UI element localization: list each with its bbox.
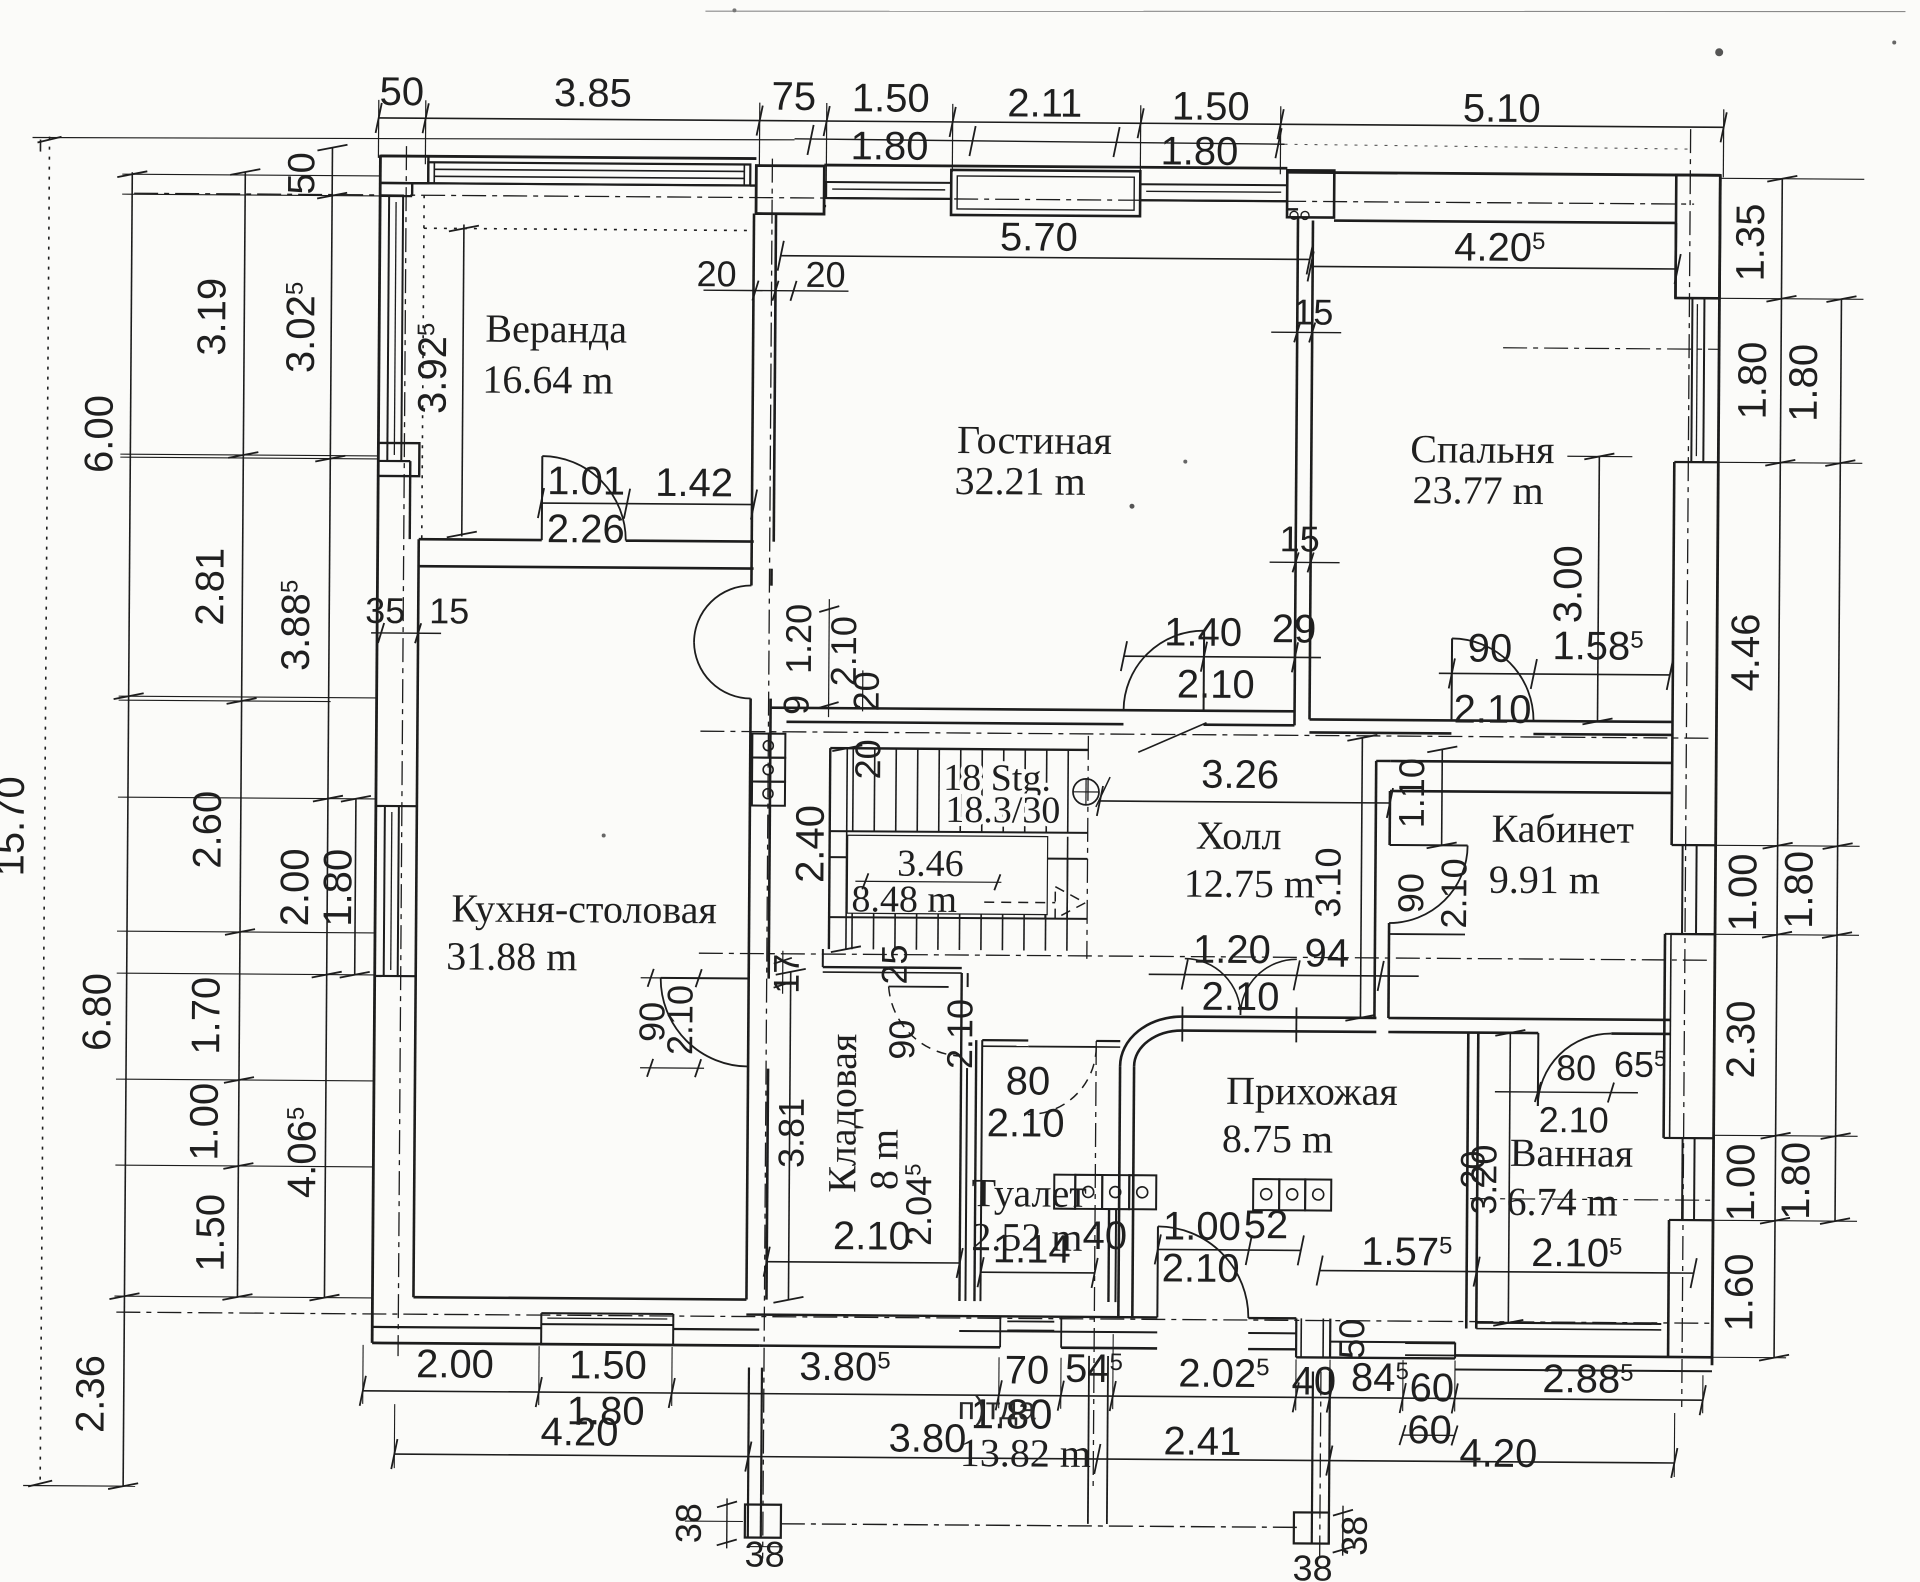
terrace SE corner block bbox=[1294, 1512, 1329, 1543]
dimension 1.00/52 entrance door bbox=[1158, 1248, 1301, 1251]
wall: kitchen / stair hall (vertical) bbox=[750, 569, 753, 586]
door: double-acting door kitchen/living room (two swings) bbox=[694, 585, 751, 642]
svg-text:50: 50 bbox=[1331, 1319, 1372, 1359]
dimension 5.70 living north bbox=[781, 256, 1310, 260]
svg-text:8.75 m: 8.75 m bbox=[1222, 1116, 1333, 1162]
dimension chain: left col 3 bbox=[324, 148, 332, 1298]
extension lines bottom bbox=[362, 1345, 364, 1404]
svg-text:1.70: 1.70 bbox=[184, 977, 229, 1055]
svg-text:6.00: 6.00 bbox=[77, 395, 122, 473]
svg-text:20: 20 bbox=[696, 253, 736, 294]
wall: toilet west (vertical) bbox=[974, 1040, 976, 1301]
svg-text:2.885: 2.885 bbox=[1542, 1357, 1634, 1402]
svg-text:3.81: 3.81 bbox=[770, 1098, 811, 1168]
svg-text:2.00: 2.00 bbox=[273, 848, 318, 926]
svg-text:2.10: 2.10 bbox=[987, 1101, 1065, 1146]
wall: office west (vertical) bbox=[1374, 761, 1376, 1018]
svg-text:2.40: 2.40 bbox=[788, 805, 833, 883]
svg-text:1.50: 1.50 bbox=[189, 1194, 234, 1272]
svg-text:3.925: 3.925 bbox=[411, 323, 456, 415]
wall: bedroom north (exterior) bbox=[1287, 172, 1720, 175]
svg-text:3.025: 3.025 bbox=[279, 282, 324, 374]
axis: terrace east wall centerline bbox=[1320, 1372, 1321, 1559]
veranda inner edge (dotted) bbox=[422, 195, 424, 539]
wall: kitchen south (exterior) bbox=[413, 1297, 746, 1299]
svg-text:38: 38 bbox=[1334, 1516, 1375, 1556]
scan noise line top bbox=[705, 3, 1905, 19]
svg-text:38: 38 bbox=[668, 1503, 709, 1543]
svg-text:80: 80 bbox=[1006, 1059, 1051, 1103]
wall jog (porch bump) living room north bbox=[951, 170, 1140, 216]
window: veranda west bbox=[387, 196, 389, 461]
svg-text:1.80: 1.80 bbox=[1777, 851, 1822, 929]
door: main entrance (leaf and swing) bbox=[1156, 1226, 1159, 1317]
svg-text:Гостиная: Гостиная bbox=[957, 417, 1112, 463]
svg-text:1.80: 1.80 bbox=[850, 124, 928, 169]
window: office east bbox=[1681, 845, 1684, 934]
door: toilet (leaf and dashed swing) bbox=[1028, 1045, 1096, 1047]
wall: east between bedroom window and office window bbox=[1672, 462, 1675, 845]
axis: top wall centerline bbox=[134, 193, 1694, 204]
svg-text:2.26: 2.26 bbox=[547, 507, 625, 552]
wall: storeroom east (vertical) bbox=[959, 973, 961, 1301]
dimension 1.01/1.42/2.26 veranda door bbox=[541, 503, 754, 504]
terrace corner dim 38 right bbox=[1342, 1506, 1344, 1556]
svg-text:4.46: 4.46 bbox=[1724, 613, 1769, 691]
dimension 90/1.58sup5 bedroom door bbox=[1439, 673, 1670, 675]
svg-text:4.205: 4.205 bbox=[1454, 225, 1546, 270]
svg-text:2.10: 2.10 bbox=[659, 985, 700, 1055]
window: living room north, right bbox=[1140, 184, 1287, 201]
axis: living south wall centerline bbox=[700, 731, 1713, 738]
stairs: direction arrow bbox=[984, 901, 1055, 903]
svg-text:1.50: 1.50 bbox=[1172, 84, 1250, 129]
svg-text:2.105: 2.105 bbox=[1531, 1231, 1623, 1276]
extension lines top bbox=[377, 100, 379, 158]
window: bathroom east bbox=[1681, 1138, 1684, 1220]
svg-text:60: 60 bbox=[1407, 1408, 1452, 1452]
wall: bathroom south inner bbox=[1476, 1323, 1661, 1324]
terrace SW corner block bbox=[745, 1505, 781, 1538]
stairs: treads bbox=[852, 748, 855, 831]
dimension 2.40 stairs bbox=[846, 748, 847, 949]
extension lines right bbox=[1720, 178, 1864, 179]
svg-text:32.21 m: 32.21 m bbox=[954, 458, 1085, 504]
svg-text:60: 60 bbox=[1409, 1366, 1454, 1410]
svg-text:18.3/30: 18.3/30 bbox=[945, 789, 1060, 832]
wall: south under toilet/hallway bbox=[746, 1315, 1157, 1318]
svg-text:8.48 m: 8.48 m bbox=[851, 878, 957, 921]
window: kitchen south bbox=[541, 1312, 673, 1315]
wall: veranda south / kitchen north bbox=[419, 538, 542, 541]
extension lines left bbox=[122, 174, 380, 176]
svg-text:2.025: 2.025 bbox=[1178, 1352, 1270, 1397]
svg-text:3.885: 3.885 bbox=[274, 580, 319, 672]
wall dim 15 lower bedroom wall bbox=[1270, 561, 1340, 563]
svg-text:2.36: 2.36 bbox=[68, 1355, 113, 1433]
svg-text:1.20: 1.20 bbox=[1193, 928, 1271, 973]
dimension 1.14 toilet bbox=[981, 1271, 1095, 1274]
svg-text:1.00: 1.00 bbox=[182, 1083, 227, 1161]
wall: toilet east (vertical) bbox=[1107, 1209, 1110, 1302]
dimension 3.20 bathroom bbox=[1508, 1033, 1510, 1323]
terrace east wall bbox=[1312, 1371, 1313, 1543]
svg-text:1.42: 1.42 bbox=[655, 461, 733, 506]
svg-text:35: 35 bbox=[365, 590, 405, 631]
dimension 60 bottom row2 bbox=[1403, 1434, 1455, 1436]
svg-text:52: 52 bbox=[1244, 1203, 1289, 1247]
svg-text:23.77 m: 23.77 m bbox=[1412, 467, 1543, 513]
svg-text:3.19: 3.19 bbox=[190, 278, 235, 356]
wall: toilet north bbox=[982, 1039, 1028, 1042]
svg-text:2.41: 2.41 bbox=[1163, 1419, 1241, 1464]
wall: storeroom north bbox=[823, 966, 962, 969]
svg-text:1.50: 1.50 bbox=[852, 76, 930, 121]
svg-text:38: 38 bbox=[1292, 1547, 1332, 1582]
svg-text:2.11: 2.11 bbox=[1007, 81, 1082, 126]
dimension chain: right col 2 (1.80 windows) bbox=[1835, 299, 1841, 1221]
svg-text:Кладовая: Кладовая bbox=[819, 1033, 865, 1193]
dimension chain: bottom row 3 bbox=[394, 1454, 1674, 1463]
wall: right exterior, top corner block bbox=[1675, 175, 1720, 298]
svg-text:1.585: 1.585 bbox=[1552, 624, 1644, 669]
dimension 3.10 hall bbox=[1360, 738, 1362, 1018]
wall: east below bath window to SE corner bbox=[1667, 1220, 1671, 1357]
axis: bottom wall centerline bbox=[116, 1312, 1712, 1323]
svg-text:4.20: 4.20 bbox=[1459, 1432, 1537, 1477]
svg-text:Веранда: Веранда bbox=[485, 306, 627, 352]
svg-text:2.10: 2.10 bbox=[939, 999, 980, 1069]
svg-text:1.575: 1.575 bbox=[1361, 1230, 1453, 1275]
dimension 3.26 hall bbox=[1100, 801, 1390, 803]
svg-text:1.50: 1.50 bbox=[569, 1343, 647, 1388]
terrace south edge (axis) bbox=[781, 1524, 1298, 1528]
axis: stairs right edge bbox=[1087, 736, 1089, 959]
dimension chain: top row 2 bbox=[795, 139, 1285, 144]
wall: south right of entrance door bbox=[1248, 1317, 1296, 1320]
svg-text:9: 9 bbox=[776, 695, 817, 715]
far left boundary line (dotted) bbox=[40, 137, 49, 1486]
wall: veranda north (exterior, with window) bbox=[380, 156, 756, 159]
stairs: dimension text panel bbox=[847, 835, 1048, 914]
axis: west wall centerline bbox=[398, 146, 406, 1356]
svg-text:2.10: 2.10 bbox=[1433, 858, 1474, 928]
svg-text:1.10: 1.10 bbox=[1391, 758, 1432, 828]
svg-text:25: 25 bbox=[874, 944, 915, 984]
axis: bathroom centerline bbox=[1470, 1199, 1713, 1201]
svg-text:70: 70 bbox=[1005, 1348, 1050, 1392]
dimension 1.20/94 double door bbox=[1149, 974, 1419, 976]
svg-text:2.30: 2.30 bbox=[1719, 1000, 1764, 1078]
dimension 1.57sup5 entrance hall south bbox=[1320, 1271, 1694, 1274]
svg-text:1.00: 1.00 bbox=[1721, 853, 1766, 931]
dimension 2.10 storeroom bbox=[767, 1262, 960, 1263]
svg-text:3.85: 3.85 bbox=[554, 71, 632, 116]
stairs: landing line bbox=[829, 917, 1087, 919]
axis: bedroom window centerline bbox=[1503, 348, 1719, 350]
door: office (leaf and swing) bbox=[1390, 844, 1468, 847]
svg-text:Кабинет: Кабинет bbox=[1491, 806, 1634, 852]
wall: west segment below veranda window bbox=[378, 443, 419, 476]
svg-text:1.80: 1.80 bbox=[1782, 344, 1827, 422]
svg-text:2.52 m: 2.52 m bbox=[971, 1214, 1082, 1260]
vent block row at toilet bbox=[1054, 1175, 1075, 1209]
axis: hall/entrance centerline bbox=[699, 953, 1712, 960]
dimension chain: bottom row 1 bbox=[363, 1391, 1703, 1400]
svg-text:80: 80 bbox=[1556, 1047, 1596, 1088]
window: kitchen west bbox=[384, 806, 385, 976]
svg-text:2.00: 2.00 bbox=[416, 1342, 494, 1387]
stairs: boundary bbox=[830, 748, 1088, 750]
wall: SE bottom exterior bbox=[1455, 1355, 1712, 1357]
svg-text:2.10: 2.10 bbox=[1177, 663, 1255, 708]
wall: office south / bath north bbox=[1388, 1018, 1670, 1020]
svg-text:75: 75 bbox=[771, 75, 816, 119]
svg-text:1.35: 1.35 bbox=[1729, 203, 1774, 281]
svg-text:2.10: 2.10 bbox=[1201, 975, 1279, 1020]
door: living room from hall (leaf and swing) bbox=[1203, 631, 1206, 711]
dimension 4.20 sup5 bedroom north bbox=[1311, 266, 1678, 269]
svg-text:п)тда: п)тда bbox=[958, 1390, 1036, 1427]
svg-text:1.80: 1.80 bbox=[1731, 341, 1776, 419]
svg-text:90: 90 bbox=[1468, 627, 1513, 671]
window: bedroom east bbox=[1691, 298, 1692, 462]
dimension chain: top row 1 bbox=[379, 118, 1724, 127]
axis: east wall centerline bbox=[1682, 129, 1691, 1407]
entrance jamb walls bbox=[1295, 1318, 1297, 1357]
svg-text:1.80: 1.80 bbox=[316, 849, 361, 927]
wall: living room south bbox=[771, 708, 1295, 712]
svg-text:4.065: 4.065 bbox=[280, 1107, 325, 1199]
vent block row at entrance hall bbox=[1253, 1179, 1279, 1210]
wall: bedroom south bbox=[1310, 719, 1673, 722]
dimension 1.40/29 living door bbox=[1124, 656, 1321, 657]
svg-text:2.60: 2.60 bbox=[185, 791, 230, 869]
entrance walkway west line bbox=[1088, 1356, 1089, 1524]
svg-text:13.82 m: 13.82 m bbox=[960, 1430, 1091, 1476]
svg-text:90: 90 bbox=[1390, 873, 1431, 913]
wall dim 20/20 at veranda-living wall bbox=[703, 290, 848, 291]
door: bathroom (leaf and swing) bbox=[1537, 1033, 1540, 1106]
wall thickness dim 35/15 at veranda south bbox=[371, 632, 441, 634]
svg-text:3.80: 3.80 bbox=[888, 1417, 966, 1462]
svg-text:Прихожая: Прихожая bbox=[1226, 1068, 1398, 1114]
stair dim lines in panel bbox=[855, 881, 1001, 882]
scan speckles bbox=[1715, 48, 1723, 56]
door: storeroom (leaf and dashed swing) bbox=[889, 986, 949, 988]
svg-text:3.805: 3.805 bbox=[799, 1345, 891, 1390]
svg-text:1.80: 1.80 bbox=[1774, 1142, 1819, 1220]
svg-text:20: 20 bbox=[847, 739, 888, 779]
svg-text:4.20: 4.20 bbox=[540, 1410, 618, 1455]
svg-text:20: 20 bbox=[1454, 1151, 1492, 1189]
svg-text:1.01: 1.01 bbox=[547, 459, 625, 504]
svg-text:15: 15 bbox=[1280, 518, 1320, 559]
svg-text:1.60: 1.60 bbox=[1717, 1253, 1762, 1331]
kitchen door tick lines bbox=[641, 977, 705, 979]
wall: right exterior (east) bbox=[1712, 175, 1720, 1365]
dimension 1.10 office door bbox=[1441, 749, 1444, 845]
wall pillar at living/bedroom junction (top) bbox=[1287, 170, 1334, 217]
wall: south exterior under bath (SE part) bbox=[1296, 1357, 1455, 1358]
svg-text:Туалет: Туалет bbox=[971, 1170, 1087, 1216]
threshold diagonal at living room door bbox=[1138, 722, 1206, 752]
svg-text:15.70: 15.70 bbox=[0, 776, 33, 876]
svg-text:Кухня-столовая: Кухня-столовая bbox=[451, 885, 717, 932]
svg-text:50: 50 bbox=[281, 152, 323, 195]
axis: central wall centerline bbox=[763, 159, 773, 1559]
svg-text:94: 94 bbox=[1304, 931, 1349, 975]
wall: office north bbox=[1390, 761, 1672, 763]
svg-text:90: 90 bbox=[881, 1019, 922, 1059]
svg-text:1.20: 1.20 bbox=[778, 604, 819, 674]
window: living room north, left bbox=[826, 182, 951, 199]
wall: hall south / entrance hall north bbox=[1182, 1017, 1376, 1018]
svg-text:50: 50 bbox=[379, 70, 424, 114]
wall: entrance hall west rounded corner bbox=[1120, 1016, 1182, 1066]
dimension chain: left col 1 (6.00/6.80/2.36) bbox=[123, 172, 132, 1486]
wall pillar between veranda and living room (top) bbox=[756, 166, 824, 214]
svg-text:20: 20 bbox=[805, 254, 845, 295]
svg-text:6.80: 6.80 bbox=[75, 973, 120, 1051]
dimension 80/65sup5 bathroom door bbox=[1495, 1091, 1638, 1094]
window: south small (under toilet) bbox=[1007, 1320, 1054, 1322]
extension line top-left bbox=[33, 135, 795, 143]
window: veranda north bbox=[428, 162, 750, 185]
svg-text:29: 29 bbox=[1272, 607, 1317, 651]
wall: entrance hall west (vertical) bbox=[1118, 1066, 1120, 1317]
svg-text:15: 15 bbox=[1293, 291, 1333, 332]
terrace west wall bbox=[748, 1368, 749, 1538]
wall: east solid block between office and bath windows bbox=[1664, 934, 1665, 1138]
svg-text:9.91 m: 9.91 m bbox=[1489, 857, 1600, 903]
terrace corner dim 38 left bbox=[726, 1498, 728, 1548]
wall: living room / bedroom (vertical) bbox=[1294, 217, 1298, 725]
veranda inner top edge (dotted) bbox=[424, 228, 752, 230]
door: bedroom (leaf and swing) bbox=[1451, 638, 1454, 720]
wall dim 15 upper bedroom wall bbox=[1271, 331, 1341, 333]
svg-text:38: 38 bbox=[745, 1534, 785, 1575]
svg-text:5.10: 5.10 bbox=[1463, 86, 1541, 131]
vent block stack at stair wall bbox=[752, 734, 785, 758]
svg-text:1.80: 1.80 bbox=[1160, 129, 1238, 174]
svg-text:6.74 m: 6.74 m bbox=[1506, 1179, 1617, 1225]
svg-text:40: 40 bbox=[1082, 1214, 1127, 1258]
svg-text:2.81: 2.81 bbox=[188, 548, 233, 626]
dimension 3.00 bedroom bbox=[1598, 456, 1600, 721]
svg-text:Ванная: Ванная bbox=[1510, 1130, 1634, 1176]
svg-text:8 m: 8 m bbox=[861, 1129, 906, 1190]
wall: veranda/living room (vertical) bbox=[752, 214, 754, 569]
wall: left exterior (west) bbox=[372, 156, 380, 1343]
svg-text:15: 15 bbox=[429, 590, 469, 631]
svg-text:Холл: Холл bbox=[1196, 813, 1282, 859]
svg-text:31.88 m: 31.88 m bbox=[446, 933, 577, 979]
svg-text:5.70: 5.70 bbox=[1000, 215, 1078, 260]
door: kitchen from hall (leaf and swing) bbox=[661, 977, 749, 980]
svg-text:3.26: 3.26 bbox=[1201, 753, 1279, 798]
svg-text:2.10: 2.10 bbox=[1453, 687, 1531, 732]
wall: kitchen west inner face bbox=[413, 539, 418, 1297]
svg-text:1.00: 1.00 bbox=[1719, 1143, 1764, 1221]
entrance walkway east line bbox=[1107, 1356, 1108, 1524]
svg-text:1.40: 1.40 bbox=[1164, 610, 1242, 655]
svg-text:Спальня: Спальня bbox=[1410, 426, 1555, 472]
door: double door hall to entrance hall (swings) bbox=[1184, 959, 1240, 1015]
wall: bathroom west (vertical) bbox=[1466, 1033, 1468, 1329]
dimension chain: left col 4 (1.80 window) bbox=[355, 799, 356, 975]
wall: living room north (exterior) bbox=[824, 165, 1287, 168]
dimension chain: left col 2 bbox=[237, 172, 245, 1297]
door: veranda to kitchen (leaf and swing) bbox=[541, 456, 544, 540]
svg-text:3.00: 3.00 bbox=[1546, 545, 1591, 623]
dimension chain: right col 1 bbox=[1774, 179, 1782, 1358]
dimension 3.81 storeroom bbox=[788, 972, 790, 1300]
stairs: column circle bbox=[1073, 779, 1099, 805]
dimension 3.92 sup5 veranda bbox=[462, 225, 464, 537]
svg-text:2.10: 2.10 bbox=[1162, 1246, 1240, 1291]
svg-text:12.75 m: 12.75 m bbox=[1184, 861, 1315, 907]
window: south small near SE corner bbox=[1405, 1342, 1455, 1344]
svg-text:1.00: 1.00 bbox=[1163, 1204, 1241, 1249]
axis: entrance centerline bbox=[1093, 1041, 1096, 1488]
svg-text:16.64 m: 16.64 m bbox=[482, 357, 613, 403]
svg-text:2.10: 2.10 bbox=[833, 1214, 911, 1259]
